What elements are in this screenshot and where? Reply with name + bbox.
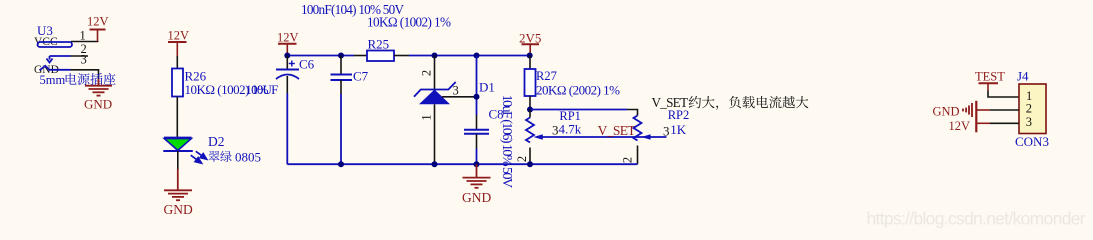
ground GND (D2)	[164, 169, 192, 200]
diode D1 pin 2	[434, 56, 436, 90]
RP2 wiper arrow	[641, 134, 650, 139]
svg-text:C7: C7	[353, 69, 369, 84]
D1 pin 3	[442, 96, 477, 98]
svg-text:TEST: TEST	[975, 70, 1005, 84]
RP1 wiper arrow	[534, 134, 543, 139]
svg-text:R27: R27	[536, 69, 557, 83]
svg-text:2: 2	[621, 157, 635, 163]
connector J4 body	[1019, 84, 1046, 134]
junction C8 top	[474, 53, 480, 59]
svg-text:1: 1	[80, 29, 86, 43]
junction 2V5	[527, 53, 533, 59]
svg-text:2: 2	[1026, 102, 1032, 116]
capacitor C7	[340, 56, 342, 75]
connector U3 GND contact	[40, 66, 71, 71]
svg-text:2: 2	[420, 70, 434, 76]
svg-text:20KΩ (2002) 1%: 20KΩ (2002) 1%	[536, 82, 620, 97]
svg-text:4.7k: 4.7k	[559, 121, 582, 136]
svg-text:R25: R25	[368, 37, 390, 52]
svg-text:12V: 12V	[87, 15, 109, 29]
svg-text:12V: 12V	[277, 31, 299, 45]
connector U3 pin 3	[71, 70, 99, 79]
junction RP1 bottom	[527, 161, 533, 167]
ground GND (main)	[463, 164, 491, 188]
wire V_SET (RP1 wiper to RP2 wiper)	[542, 136, 667, 138]
connector U3 pin 2 wire	[50, 55, 71, 57]
wire RP1 top to RP2 top	[530, 109, 627, 111]
svg-text:V_SET: V_SET	[598, 123, 637, 138]
connector U3 pin 1	[71, 41, 99, 43]
connector U3 VCC contact	[38, 42, 73, 47]
svg-text:GND: GND	[933, 105, 960, 119]
svg-text:3: 3	[453, 84, 459, 98]
D1 cathode bar	[414, 82, 456, 97]
junction C7 bottom	[338, 161, 344, 167]
svg-text:D1: D1	[479, 80, 495, 95]
svg-text:12V: 12V	[949, 119, 971, 133]
junction C6 top	[284, 53, 290, 59]
D2 value	[208, 151, 219, 162]
resistor R26	[172, 69, 183, 97]
svg-text:CON3: CON3	[1015, 134, 1049, 149]
wire C8 branch	[476, 56, 478, 116]
svg-text:100UF: 100UF	[245, 82, 278, 97]
junction D1 pin3	[474, 94, 480, 100]
svg-text:https://blog.csdn.net/komonder: https://blog.csdn.net/komonder	[867, 209, 1086, 229]
svg-text:10uF (106) 10% 50V: 10uF (106) 10% 50V	[499, 95, 514, 189]
svg-text:1: 1	[420, 114, 434, 120]
svg-text:3: 3	[81, 53, 87, 67]
ground GND (U3)	[85, 79, 112, 96]
junction D1 top	[432, 53, 438, 59]
junction C8 bottom	[474, 161, 480, 167]
D1 triangle	[419, 90, 450, 105]
wire 12V rail	[287, 55, 354, 57]
wire C6 to bottom rail	[286, 76, 288, 93]
wire C7 to bottom rail	[340, 80, 342, 94]
junction C7 top	[338, 53, 344, 59]
connector U3 center-pin arrow	[47, 56, 53, 63]
junction D1 bottom	[432, 161, 438, 167]
potentiometer RP2	[634, 116, 642, 141]
svg-text:1K: 1K	[670, 122, 687, 137]
wire 2V5 rail	[409, 55, 530, 57]
wire 12V to R26	[176, 56, 178, 69]
junction R27 bottom	[527, 107, 533, 113]
svg-text:3: 3	[1026, 115, 1032, 129]
J4 pin 2 wire	[977, 109, 990, 111]
D2 light arrows	[191, 151, 207, 163]
resistor R27	[529, 56, 531, 70]
wire TEST to J4 pin1	[988, 91, 1019, 98]
svg-text:GND: GND	[462, 190, 491, 205]
wire bottom rail GND net	[287, 163, 637, 165]
power port 12V (U3)	[90, 30, 106, 42]
potentiometer RP1	[529, 110, 531, 118]
svg-text:C6: C6	[299, 57, 315, 72]
svg-text:GND: GND	[84, 97, 112, 112]
svg-text:2V5: 2V5	[519, 31, 541, 46]
capacitor C6	[286, 56, 288, 70]
svg-text:V_SET: V_SET	[652, 95, 689, 110]
svg-text:J4: J4	[1017, 69, 1029, 84]
svg-text:GND: GND	[164, 202, 193, 217]
svg-text:0805: 0805	[235, 150, 261, 165]
D1 pin 1	[434, 104, 436, 164]
svg-text:3: 3	[663, 123, 670, 138]
capacitor C8	[476, 115, 478, 130]
svg-text:2: 2	[515, 156, 529, 162]
wire R26 to D2	[176, 97, 178, 139]
J4 pin 3 wire	[977, 122, 990, 124]
wire D2 to GND	[177, 151, 179, 169]
svg-text:D2: D2	[208, 134, 225, 149]
svg-text:10KΩ (1002) 1%: 10KΩ (1002) 1%	[367, 14, 451, 29]
svg-text:12V: 12V	[168, 29, 190, 43]
svg-text:5mm: 5mm	[40, 73, 66, 87]
LED D2	[164, 137, 192, 139]
